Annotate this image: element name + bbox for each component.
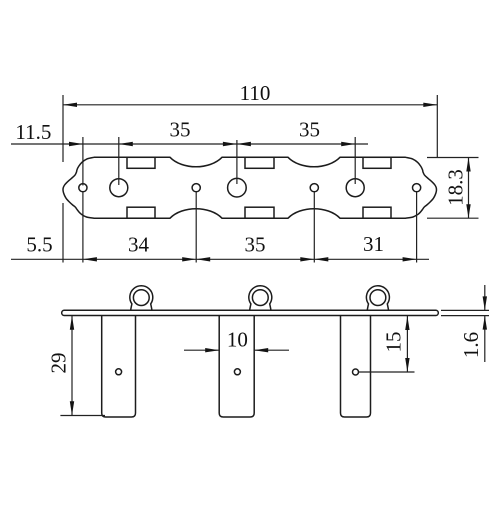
svg-text:35: 35 bbox=[170, 118, 191, 142]
svg-text:29: 29 bbox=[47, 353, 71, 374]
svg-text:5.5: 5.5 bbox=[26, 233, 52, 257]
svg-text:35: 35 bbox=[245, 233, 266, 257]
svg-text:31: 31 bbox=[363, 232, 384, 256]
svg-text:35: 35 bbox=[299, 118, 320, 142]
svg-text:10: 10 bbox=[227, 328, 248, 352]
svg-text:110: 110 bbox=[240, 81, 271, 105]
svg-text:15: 15 bbox=[382, 332, 406, 353]
svg-text:34: 34 bbox=[128, 233, 150, 257]
svg-text:1.6: 1.6 bbox=[459, 332, 483, 358]
svg-text:11.5: 11.5 bbox=[15, 120, 51, 144]
svg-text:18.3: 18.3 bbox=[444, 169, 468, 206]
